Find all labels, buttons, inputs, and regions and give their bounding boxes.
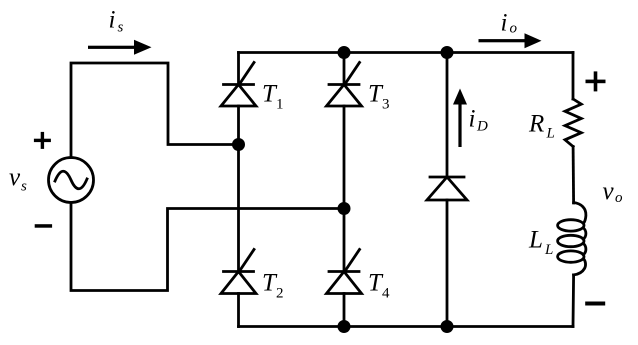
junction node: bottom rail / diode leg <box>441 320 454 333</box>
wire: T3 anode to node B <box>343 106 346 272</box>
wire: freewheel diode leg (x=447) <box>446 53 449 178</box>
svg-text:v: v <box>603 178 615 205</box>
wire: top rail from T1 top to load top <box>239 51 574 54</box>
svg-text:2: 2 <box>276 286 284 302</box>
wire: source top terminal up and right to node A <box>71 63 239 158</box>
wire: LL bottom lead to bottom rail <box>572 275 575 327</box>
wire: T4 anode to bottom rail <box>343 294 346 327</box>
wire: T2 anode to bottom rail <box>237 294 240 327</box>
minus sign at source <box>35 224 52 228</box>
inductor LL coil <box>574 203 586 224</box>
svg-text:L: L <box>544 242 553 258</box>
wire: right load branch top lead <box>572 53 575 100</box>
svg-text:o: o <box>510 21 518 37</box>
junction node: top rail / diode leg <box>441 46 454 59</box>
wire: left bridge leg T1/T2 (x=238.5) <box>237 53 240 85</box>
svg-text:3: 3 <box>382 97 390 113</box>
junction node: top rail / T3 leg <box>338 46 351 59</box>
arrow i_o <box>479 33 542 48</box>
junction node A: source top / T1-T2 midpoint <box>232 138 245 151</box>
svg-text:s: s <box>118 20 124 36</box>
wire: T1 anode to node A <box>237 106 240 272</box>
thyristor T4 <box>327 250 362 294</box>
svg-text:4: 4 <box>382 286 390 302</box>
svg-text:o: o <box>615 190 623 206</box>
freewheeling diode D <box>427 177 467 200</box>
svg-text:L: L <box>528 227 543 254</box>
AC source VS circle <box>49 158 94 203</box>
minus sign at load <box>585 302 605 306</box>
resistor RL zigzag <box>565 99 581 147</box>
svg-text:L: L <box>546 126 555 142</box>
svg-text:i: i <box>109 7 116 34</box>
plus sign at load <box>586 71 606 91</box>
wire: bottom rail <box>239 325 574 328</box>
thyristor T2 <box>221 250 256 294</box>
AC source sine symbol <box>55 171 87 189</box>
thyristor T1 <box>221 63 256 107</box>
svg-text:R: R <box>528 111 544 138</box>
svg-text:1: 1 <box>276 97 284 113</box>
wire: between RL and LL <box>572 147 575 204</box>
svg-text:i: i <box>501 10 508 37</box>
junction node: bottom rail / T4 leg <box>338 320 351 333</box>
svg-text:v: v <box>9 164 21 191</box>
svg-text:s: s <box>21 179 27 195</box>
wire: source bottom terminal down and right to node B <box>71 203 344 291</box>
wire: diode anode to bottom rail <box>446 200 449 327</box>
svg-text:D: D <box>476 119 488 135</box>
arrow i_D <box>453 89 467 148</box>
plus sign at source <box>34 132 51 149</box>
thyristor T3 <box>327 63 362 107</box>
wire: right bridge leg T3/T4 (x=344) <box>343 53 346 85</box>
svg-text:i: i <box>469 106 476 133</box>
arrow i_s <box>88 40 152 55</box>
junction node B: source bottom / T3-T4 midpoint <box>338 202 351 215</box>
